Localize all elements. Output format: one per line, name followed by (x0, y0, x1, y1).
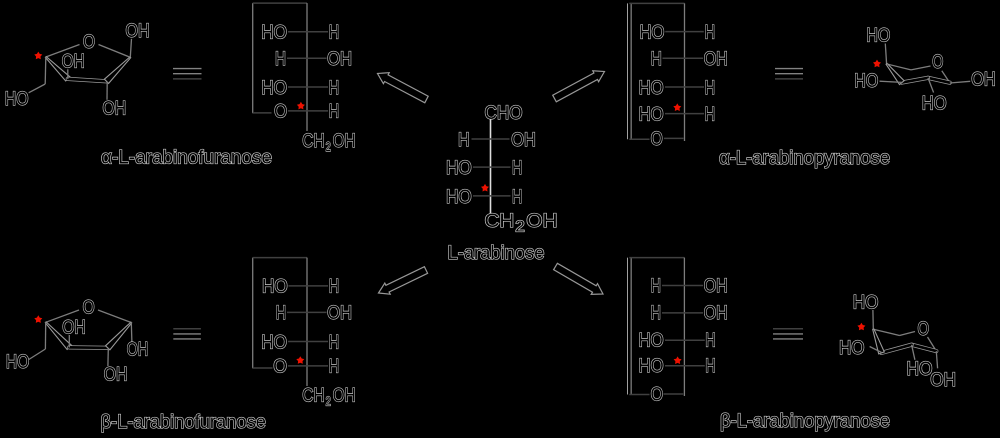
svg-text:H: H (276, 302, 286, 324)
equivalence sign (top-right) (775, 68, 803, 70)
wire bracket bottom to ring O (TR) (629, 138, 649, 140)
arrow to beta-pyranose (lower-right) (554, 263, 603, 294)
svg-text:O: O (83, 31, 95, 53)
bond C4-OH up (BR chair) (872, 310, 874, 329)
svg-text:H: H (512, 186, 522, 208)
equivalence sign (top-left) (173, 68, 202, 70)
svg-text:α-L-arabinofuranose: α-L-arabinofuranose (101, 147, 272, 169)
svg-text:OH: OH (333, 130, 356, 152)
ring bond O-C1 (TR chair) (942, 71, 950, 83)
svg-text:2: 2 (515, 218, 525, 235)
bond C1-OH up (TL Haworth) (130, 39, 131, 58)
bond row2 (BR) (662, 312, 703, 314)
ring bond C5-O (TR chair) (911, 66, 931, 70)
svg-text:α-L-arabinopyranose: α-L-arabinopyranose (719, 147, 890, 169)
svg-text:HO: HO (639, 77, 664, 99)
svg-text:OH: OH (704, 302, 728, 324)
wire ring-closure bracket vertical bold (TR) (627, 3, 632, 139)
svg-text:HO: HO (907, 358, 933, 380)
ring wedge bond C1-C2 (BL Haworth) (106, 322, 132, 350)
svg-text:L-arabinose: L-arabinose (448, 242, 545, 264)
svg-text:HO: HO (866, 25, 890, 47)
arrow to beta-furanose (lower-left) (379, 267, 428, 295)
wire ring-closure bracket vertical bold (BR) (627, 258, 632, 395)
svg-text:CHO: CHO (485, 102, 523, 124)
equivalence sign (bottom-right) (773, 328, 803, 330)
bond row4 (BL) (288, 365, 328, 367)
wire bracket top horizontal (BR) (629, 257, 684, 259)
bond row1 (BL) (289, 285, 329, 287)
bond C3-OH up (TL Haworth) (67, 69, 69, 79)
svg-text:OH: OH (333, 384, 356, 406)
bond row3 (TR) (665, 86, 704, 88)
wire carbon chain vertical (TL) (306, 3, 308, 131)
svg-text:HO: HO (839, 337, 865, 359)
bond row5 O-chain (BR) (664, 393, 684, 395)
bond row4 (BR) (665, 365, 705, 367)
bond row3 (TL) (288, 86, 328, 88)
svg-text:O: O (274, 101, 287, 123)
bond C4 horizontal row3 (473, 195, 511, 197)
ring bold bond C1-C2 (TR chair) (928, 78, 950, 83)
svg-text:OH: OH (104, 364, 128, 386)
ring bond O-C1 (TL Haworth) (99, 45, 131, 58)
bond row2 (BL) (287, 311, 327, 313)
arrow to alpha-furanose (upper-left) (378, 73, 429, 103)
svg-text:H: H (705, 22, 715, 44)
svg-text:H: H (512, 157, 522, 179)
svg-text:β-L-arabinopyranose: β-L-arabinopyranose (720, 410, 890, 432)
bond row1 (BR) (662, 285, 703, 287)
ring wedge bond C4-C3 (TL Haworth) (45, 57, 70, 81)
svg-text:HO: HO (854, 70, 878, 92)
svg-text:OH: OH (704, 48, 728, 70)
bond C4-C5 (BL Haworth) (44, 322, 46, 349)
red asterisk anomeric carbon (BL Fischer) (296, 356, 304, 364)
wire bracket top horizontal (BL) (253, 257, 307, 259)
svg-text:H: H (275, 48, 286, 70)
ring bond O-C1 (BL Haworth) (98, 310, 131, 323)
ring wedge bond C4-C3 (TR chair) (886, 64, 904, 85)
red asterisk anomeric C (BR chair) (857, 323, 865, 331)
bond C5-OH (BL Haworth) (29, 349, 46, 360)
svg-text:2: 2 (326, 140, 331, 154)
svg-text:OH: OH (126, 20, 150, 42)
red asterisk anomeric carbon (TL Fischer) (297, 102, 305, 110)
svg-text:H: H (329, 22, 339, 44)
bond C1-OH right (TR chair) (950, 81, 970, 83)
bond row3 (BR) (665, 339, 705, 341)
svg-text:H: H (651, 275, 661, 297)
svg-text:OH: OH (526, 210, 557, 232)
wire bracket top horizontal (TL) (253, 2, 307, 4)
bond C3 horizontal row2 (473, 166, 511, 168)
svg-text:OH: OH (327, 302, 352, 324)
wire carbon chain vertical (BL) (306, 258, 308, 386)
svg-text:β-L-arabinofuranose: β-L-arabinofuranose (101, 411, 267, 433)
ring bold bond C3-C2 (BL Haworth) (69, 345, 107, 350)
svg-text:HO: HO (639, 103, 664, 125)
svg-text:HO: HO (853, 292, 879, 314)
ring bold bond C1-C2 (BR chair) (912, 345, 937, 351)
svg-text:OH: OH (327, 48, 352, 70)
bond C2-OH down (BL Haworth) (107, 349, 109, 367)
bond row4 (TR) (665, 113, 704, 115)
svg-text:H: H (329, 332, 339, 354)
svg-text:O: O (932, 51, 943, 73)
svg-text:O: O (651, 128, 663, 150)
svg-text:CH: CH (485, 210, 515, 232)
svg-text:H: H (329, 77, 339, 99)
wire ring-closure bracket vertical (TL) (252, 3, 254, 113)
svg-text:H: H (705, 77, 715, 99)
svg-text:H: H (651, 48, 662, 70)
ring wedge bond C4-C3 (BL Haworth) (45, 322, 71, 350)
svg-text:HO: HO (261, 22, 287, 44)
svg-text:OH: OH (511, 129, 536, 151)
ring wedge bond C1-C2 (TL Haworth) (104, 57, 130, 84)
wire bracket bottom to ring O (TL) (253, 112, 272, 114)
svg-text:CH: CH (302, 130, 324, 152)
bond row4 (TL) (288, 110, 328, 112)
ring bond O-C4 (BL Haworth) (46, 310, 79, 322)
svg-text:O: O (918, 318, 930, 340)
svg-text:OH: OH (971, 68, 996, 90)
svg-text:OH: OH (62, 316, 85, 338)
ring bond C5-O (BR chair) (900, 332, 916, 336)
bond C3-OH left (TR chair) (880, 81, 902, 82)
svg-text:HO: HO (262, 276, 288, 298)
svg-text:H: H (705, 355, 715, 377)
bond C2-OH down (BR chair) (912, 345, 915, 360)
bond row2 (TL) (287, 57, 327, 59)
ring bond O-C4 (TL Haworth) (46, 45, 80, 58)
svg-text:OH: OH (62, 51, 85, 73)
bond C1-OH down (BL Haworth) (130, 323, 133, 343)
bond C4-OH up (TR chair) (885, 44, 886, 64)
ring wedge bond C4-C3 (BR chair) (873, 329, 885, 354)
bond row2 (TR) (663, 57, 704, 59)
red asterisk anomeric carbon (BR Fischer) (674, 356, 682, 364)
svg-text:CH: CH (302, 384, 324, 406)
bond row5 O-chain (TR) (664, 137, 684, 139)
wire ring-closure bracket vertical (BL) (252, 258, 254, 369)
svg-text:H: H (651, 302, 661, 324)
bond C4-C5 (TL Haworth) (44, 57, 47, 84)
wire bracket bottom to ring O (BR) (629, 394, 649, 396)
svg-text:2: 2 (326, 394, 331, 408)
red asterisk anomeric C (TL Haworth) (34, 52, 42, 60)
svg-text:HO: HO (922, 93, 947, 115)
bond C3-OH up (BL Haworth) (68, 335, 70, 347)
svg-text:H: H (329, 276, 339, 298)
red asterisk anomeric carbon (TR Fischer) (673, 103, 681, 111)
ring bond C4-C5 (BR chair) (873, 329, 899, 335)
svg-text:H: H (705, 103, 715, 125)
svg-text:HO: HO (5, 88, 29, 110)
arrow to alpha-pyranose (upper-right) (553, 71, 605, 102)
wire bracket bottom to ring O (BL) (253, 367, 273, 369)
svg-text:O: O (83, 297, 95, 319)
svg-text:OH: OH (930, 369, 956, 391)
svg-text:O: O (273, 356, 287, 378)
bond C3-OH left (BR chair) (870, 347, 882, 353)
red asterisk anomeric C (BL Haworth) (34, 315, 42, 323)
svg-text:OH: OH (127, 338, 148, 360)
svg-text:O: O (651, 383, 663, 405)
svg-text:H: H (329, 356, 339, 378)
bond C2-OH down (TR chair) (928, 78, 934, 93)
ring bond C4-C5 (TR chair) (887, 64, 911, 70)
wire carbon chain vertical (BR) (683, 258, 685, 396)
red asterisk anomeric C (TR chair) (873, 60, 881, 68)
wire carbon chain vertical (center Fischer) (490, 119, 492, 213)
svg-text:H: H (329, 101, 339, 123)
bond C5-OH (TL Haworth) (29, 84, 46, 93)
bond row3 (BL) (288, 341, 328, 343)
ring bond O-C1 (BR chair) (928, 337, 937, 351)
bond row1 (TR) (665, 31, 704, 33)
svg-text:OH: OH (103, 97, 127, 119)
ring bold bond C2-C3 (TR chair) (902, 78, 928, 83)
ring bold bond C2-C3 (BR chair) (882, 345, 912, 353)
svg-text:HO: HO (261, 332, 287, 354)
svg-text:OH: OH (704, 275, 728, 297)
svg-text:HO: HO (446, 186, 472, 208)
bond row1 (TL) (288, 31, 328, 33)
bond C2-OH down (TL Haworth) (106, 82, 108, 100)
equivalence sign (bottom-left) (173, 328, 201, 330)
svg-text:HO: HO (6, 351, 29, 373)
svg-text:HO: HO (640, 22, 665, 44)
svg-text:HO: HO (446, 157, 472, 179)
svg-text:HO: HO (261, 77, 287, 99)
red asterisk anomeric C4 (center) (481, 184, 489, 192)
svg-text:H: H (458, 129, 470, 151)
ring bold bond C3-C2 (TL Haworth) (68, 79, 107, 81)
svg-text:HO: HO (639, 355, 664, 377)
wire carbon chain vertical (TR) (684, 3, 686, 141)
bond C1-OH down (BR chair) (936, 351, 937, 368)
bond C2-H / C2-OH horizontal row1 (472, 138, 510, 140)
svg-text:HO: HO (639, 330, 664, 352)
svg-text:H: H (705, 330, 715, 352)
wire bracket top horizontal (TR) (629, 2, 684, 4)
